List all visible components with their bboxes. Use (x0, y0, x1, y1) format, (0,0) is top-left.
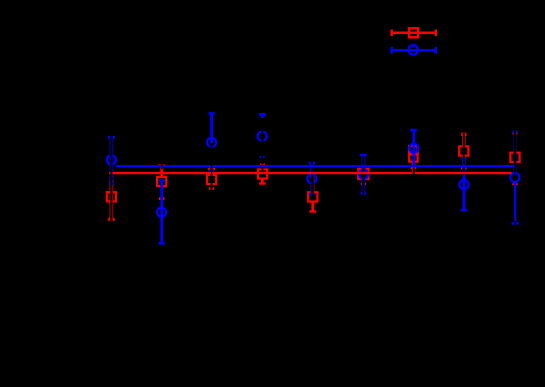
G8 red bar mid (462, 156, 466, 167)
G2 red square (157, 177, 166, 186)
G2 blue circle (157, 208, 166, 217)
G5 blue bar upper (310, 165, 314, 179)
legend red right cap (435, 30, 438, 37)
G1 blue dash (109, 182, 114, 185)
G9 black bar cap split (515, 221, 516, 226)
G8 blue dash (461, 157, 466, 160)
G3 red caret-down (209, 168, 215, 172)
legend red square marker (409, 28, 418, 37)
G5 red bar lower (311, 202, 314, 211)
G4 red bar below square (261, 179, 264, 182)
G2 red cap (158, 164, 165, 167)
G4 blue cap (259, 113, 266, 116)
G3 blue caret-down small (209, 170, 213, 173)
G9 black bar a (514, 130, 516, 172)
G8 red dash below blue line (461, 167, 467, 169)
G6 blue circle (359, 170, 368, 179)
G1 red caret-up (108, 217, 114, 221)
G8 red square (459, 146, 468, 155)
G3 blue circle (207, 138, 216, 147)
G6 blue bottom cap (360, 192, 366, 194)
G2 blue bar (160, 180, 163, 243)
G2 blue cap in square (159, 179, 165, 181)
G8 blue bar lower (463, 175, 466, 211)
G9 blue circle (510, 173, 519, 182)
G8 black bar b (463, 167, 465, 171)
G9 red square (510, 153, 519, 162)
red mean line (109, 172, 511, 174)
G5 blue bar lower (310, 183, 313, 193)
G1 blue caret-down (108, 136, 114, 140)
G9 blue bar upper (514, 133, 517, 173)
G7 blue cap (410, 129, 417, 132)
G3 blue cap (209, 112, 215, 115)
G1 blue circle (107, 155, 116, 164)
G7 red square A (409, 146, 417, 154)
G6 blue bar upper (362, 155, 366, 174)
G5 red cap (309, 210, 316, 212)
G3 red dash (209, 187, 214, 190)
G7 blue circle (409, 144, 418, 153)
G9 red dash below circle (512, 183, 517, 185)
legend red errorbar line (391, 32, 437, 35)
legend blue right cap (435, 47, 438, 54)
G9 blue bottom cap (512, 222, 519, 224)
G3 red square (207, 175, 216, 184)
G9 blue bar lower (514, 182, 516, 222)
legend blue circle marker (409, 45, 418, 54)
G5 blue circle (307, 174, 316, 183)
G5 blue caret-down (309, 162, 315, 166)
G6 blue bar lower (362, 180, 366, 193)
G7 blue bar (412, 130, 415, 167)
blue mean line (116, 165, 515, 167)
G2 blue bottom cap (159, 242, 165, 245)
G5 black bar a (311, 161, 313, 165)
G1 blue bar lower (110, 165, 114, 181)
G4 black bar b (261, 168, 263, 172)
G9 red dash top (512, 132, 517, 134)
G5 black bar c (311, 174, 314, 196)
G2 black notch (161, 164, 163, 170)
legend red left cap (390, 30, 393, 37)
G9 blue dash top (512, 131, 517, 134)
G3 blue bar (210, 113, 213, 143)
G4 red cap (259, 182, 266, 184)
G7 red cap-dash (411, 167, 417, 169)
G4 blue circle (258, 132, 267, 141)
G2 red dash (159, 197, 165, 200)
G4 blue dash (260, 156, 265, 158)
G6 blue cap top (360, 154, 367, 156)
G3 black bar (211, 146, 213, 191)
G1 red bar (110, 171, 114, 217)
G4 red dash (260, 163, 265, 165)
G5 red bar upper (311, 174, 314, 192)
G7 black bar (413, 167, 415, 175)
G5 red square (308, 192, 317, 201)
G1 red square (107, 192, 116, 201)
G8 red dash top (461, 133, 466, 136)
G6 black bar b (362, 168, 364, 172)
G1 blue bar upper (110, 139, 114, 165)
G6 red square (358, 169, 368, 179)
G4 blue bar stub (261, 116, 264, 119)
legend blue errorbar line (391, 49, 437, 52)
G4 red square (258, 169, 267, 178)
G6 black bar a (362, 156, 364, 165)
G4 black bar a (261, 118, 263, 164)
G8 blue bottom cap (461, 209, 468, 211)
G8 black bar a (463, 133, 465, 164)
G5 black bar b (311, 168, 313, 172)
G2 red bar (160, 167, 163, 178)
G7 red bar (412, 162, 416, 172)
G7 red square B (409, 153, 417, 161)
G8 blue bar upper (462, 160, 466, 172)
legend blue left cap (390, 47, 393, 54)
G8 red bar upper (462, 136, 466, 146)
G6 black bar c (362, 174, 364, 194)
G6 red dash (361, 182, 366, 185)
G5 blue cap-dash split (309, 193, 315, 195)
G8 blue circle (459, 180, 468, 189)
G3 black thin notch over lines (211, 165, 212, 175)
G1 black bar (110, 135, 112, 221)
